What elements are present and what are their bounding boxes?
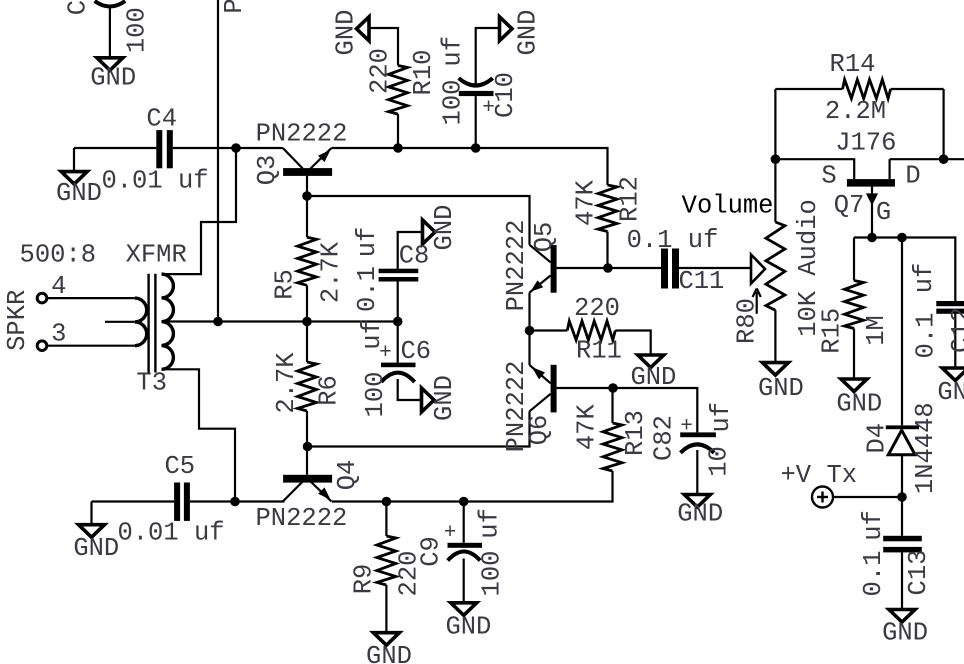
wire C8 bottom	[397, 281, 399, 322]
svg-text:uf: uf	[439, 36, 468, 67]
svg-text:uf: uf	[353, 227, 382, 258]
diode D4	[886, 425, 919, 454]
node center-tap junction	[213, 317, 223, 327]
wire Q7 drain lead	[888, 159, 890, 179]
wire node to C11	[608, 267, 661, 269]
transformer T3 core	[149, 274, 156, 373]
wire Q3 base node to Q5 collector	[307, 196, 530, 245]
capacitor C82	[680, 432, 716, 452]
svg-text:0.1: 0.1	[353, 266, 382, 312]
svg-text:uf: uf	[476, 508, 505, 539]
wire C4 gnd drop	[73, 148, 75, 172]
svg-text:47K: 47K	[572, 179, 601, 226]
wire Q3 emitter to R12 top	[331, 148, 607, 185]
node Q5 base junction	[603, 263, 613, 273]
svg-text:GND: GND	[366, 642, 412, 664]
wire C4 left	[74, 147, 156, 149]
svg-text:Q7: Q7	[834, 191, 865, 220]
node top net vertical wire to XFMR center tap	[217, 0, 219, 322]
svg-text:47K: 47K	[573, 404, 602, 451]
wire C10 top to GND	[476, 28, 500, 85]
svg-text:GND: GND	[430, 205, 459, 251]
svg-text:C2: C2	[64, 0, 93, 15]
ground (R80)	[758, 363, 804, 403]
ground (R10)	[332, 10, 370, 56]
svg-text:C8: C8	[399, 242, 430, 271]
wire emitters to R11	[530, 329, 568, 331]
svg-text:GND: GND	[677, 500, 723, 529]
wire Q6 base node to C82	[613, 388, 697, 432]
svg-text:GND: GND	[73, 534, 119, 563]
wire Q7 gate	[871, 187, 873, 238]
wire R10 top to GND	[369, 28, 398, 66]
JFET Q7	[847, 179, 895, 205]
capacitor C2 (partial, top edge)	[95, 1, 126, 58]
node emitters junction	[525, 326, 535, 336]
wire Q4 emitter to R13 bottom	[332, 471, 613, 502]
node R10 junction	[393, 143, 403, 153]
capacitor C4	[156, 130, 173, 168]
ground (R9)	[366, 633, 412, 664]
node gate junction	[867, 233, 877, 243]
wire R10 bottom	[397, 114, 399, 148]
svg-text:GND: GND	[332, 10, 361, 56]
capacitor C8	[379, 269, 419, 282]
wire C5 left	[92, 500, 175, 502]
svg-text:C6: C6	[400, 337, 431, 366]
svg-text:R13: R13	[621, 410, 650, 456]
svg-text:R11: R11	[576, 337, 622, 366]
svg-text:C9: C9	[417, 536, 446, 567]
svg-text:100: 100	[439, 80, 468, 126]
wire C9 bottom to GND	[463, 559, 465, 604]
wire pin 3 lead	[47, 345, 135, 347]
resistor R14	[843, 80, 891, 99]
svg-text:0.1: 0.1	[912, 313, 941, 359]
svg-text:220: 220	[574, 294, 620, 323]
transformer T3 secondary winding	[135, 298, 147, 346]
svg-text:GND: GND	[937, 378, 964, 407]
node Q4 base junction	[303, 442, 313, 452]
wire R14 right	[891, 88, 944, 90]
wire R9 bottom to GND	[385, 585, 387, 633]
svg-text:220: 220	[366, 48, 395, 94]
svg-text:PN2222: PN2222	[256, 120, 348, 149]
pin 3 terminal	[37, 341, 47, 351]
svg-text:500:8: 500:8	[20, 240, 97, 269]
svg-text:PN2222: PN2222	[502, 220, 531, 312]
transformer T3 primary winding	[162, 274, 174, 369]
resistor R9	[377, 536, 396, 585]
ground (C82)	[677, 495, 723, 529]
node C8/C6 junction	[393, 317, 403, 327]
capacitor C5	[174, 483, 190, 521]
node +V junction	[897, 492, 907, 502]
ground (C13)	[882, 610, 928, 648]
svg-text:C82: C82	[650, 415, 679, 461]
svg-text:Q4: Q4	[333, 460, 362, 491]
wire R14 right leg	[942, 89, 944, 159]
svg-text:PN2222: PN2222	[255, 504, 347, 533]
wire C11 to R80 wiper	[679, 267, 751, 269]
+V Tx supply terminal	[812, 487, 833, 508]
svg-text:P: P	[220, 0, 249, 14]
svg-text:2.2M: 2.2M	[825, 97, 886, 126]
svg-text:XFMR: XFMR	[126, 240, 187, 269]
svg-text:GND: GND	[882, 618, 928, 647]
wire C8 top to GND	[398, 232, 423, 269]
wire R13 top stub	[611, 388, 613, 423]
svg-text:2.7K: 2.7K	[317, 241, 346, 303]
wire R12 bottom stub	[606, 232, 608, 269]
wire Q5 base	[557, 267, 608, 269]
potentiometer R80	[751, 222, 785, 314]
wire drain net to edge	[890, 158, 964, 160]
transistor Q3	[283, 148, 332, 176]
node R14/D junction	[939, 154, 949, 164]
svg-text:C13: C13	[904, 550, 933, 596]
node Q3 base junction	[302, 191, 312, 201]
wire C82 bottom to GND	[696, 450, 698, 495]
wire C12 bottom to GND	[954, 314, 956, 368]
wire node to XFMR top lead	[162, 148, 237, 274]
capacitor C13	[883, 536, 922, 553]
wire R6 top stub	[306, 322, 308, 363]
svg-text:uf: uf	[910, 263, 939, 294]
svg-text:+V: +V	[780, 461, 811, 490]
wire pin 4 lead	[47, 297, 135, 299]
node Q6 base junction	[608, 383, 618, 393]
svg-text:S: S	[821, 162, 836, 191]
node D4 junction	[897, 233, 907, 243]
ground (R15)	[836, 379, 882, 418]
svg-text:T3: T3	[136, 369, 167, 398]
wire C5 gnd drop	[90, 502, 92, 526]
svg-text:Q5: Q5	[530, 222, 559, 253]
svg-text:R15: R15	[818, 308, 847, 354]
node C9 junction	[459, 497, 469, 507]
svg-text:1N4448: 1N4448	[911, 402, 940, 494]
wire Q3 base	[306, 176, 308, 196]
svg-text:GND: GND	[445, 613, 491, 642]
wire R11 to GND	[615, 331, 650, 356]
svg-text:D4: D4	[863, 423, 892, 454]
wire R80 top stub	[774, 159, 776, 222]
svg-text:GND: GND	[430, 375, 459, 421]
svg-text:uf: uf	[859, 510, 888, 541]
svg-text:GND: GND	[758, 374, 804, 403]
transistor Q4	[283, 475, 332, 502]
ground (C5)	[73, 525, 119, 563]
svg-text:R14: R14	[830, 50, 876, 79]
svg-text:Q6: Q6	[525, 415, 554, 446]
svg-text:3: 3	[51, 319, 66, 348]
svg-text:C11: C11	[678, 267, 724, 296]
svg-text:100: 100	[123, 7, 152, 53]
svg-text:SPKR: SPKR	[3, 290, 32, 351]
svg-text:+: +	[680, 415, 693, 438]
wire XFMR secondary stub	[105, 321, 135, 323]
resistor R12	[598, 185, 617, 232]
svg-text:R9: R9	[350, 564, 379, 595]
wire Q6 emitter	[528, 331, 530, 366]
wire Q4 base node to Q6 collector	[308, 411, 530, 446]
svg-text:G: G	[876, 198, 891, 227]
capacitor C10	[459, 78, 494, 96]
wire gate net to D4 cathode	[901, 238, 903, 426]
wire C10 bottom	[475, 96, 477, 148]
node R14/S junction	[771, 154, 781, 164]
capacitor C12	[936, 301, 964, 314]
wire C9 top	[463, 502, 465, 543]
svg-text:R5: R5	[271, 269, 300, 300]
node R5/R6 junction	[302, 317, 312, 327]
svg-text:GND: GND	[56, 179, 102, 208]
wire XFMR bottom lead	[162, 369, 236, 501]
svg-text:D: D	[905, 162, 920, 191]
wire R14 left leg	[774, 89, 776, 159]
wire C4 to Q3 collector	[173, 147, 283, 149]
resistor R6	[298, 362, 317, 411]
svg-text:0.1 uf: 0.1 uf	[627, 226, 719, 255]
svg-text:+: +	[379, 342, 392, 365]
resistor R10	[389, 66, 408, 115]
wire R5 top stub	[306, 196, 308, 237]
svg-text:R80: R80	[733, 298, 762, 344]
wire Q5 emitter	[528, 293, 530, 331]
svg-text:Tx: Tx	[826, 461, 857, 490]
svg-text:GND: GND	[90, 64, 136, 93]
capacitor C6	[381, 363, 416, 382]
ground (C9)	[445, 603, 491, 642]
wire Q6 base	[557, 387, 613, 389]
wire gate net to C12	[854, 238, 955, 302]
wire R9 top stub	[385, 502, 387, 537]
svg-text:R6: R6	[315, 375, 344, 406]
svg-text:J176: J176	[835, 129, 896, 158]
ground (C10)	[500, 10, 543, 56]
wire R5 bottom stub	[306, 285, 308, 321]
svg-text:Q3: Q3	[253, 155, 282, 186]
svg-text:C10: C10	[491, 72, 520, 118]
wire D4 anode	[901, 455, 903, 497]
svg-text:10: 10	[705, 446, 734, 477]
resistor R11	[567, 321, 615, 340]
svg-text:C12: C12	[947, 307, 964, 353]
wire XFMR center tap net	[162, 320, 398, 322]
wire C6 top	[397, 322, 399, 363]
svg-text:Volume: Volume	[682, 191, 774, 220]
wire R15 bottom to GND	[853, 329, 855, 380]
svg-text:4: 4	[51, 272, 66, 301]
svg-text:uf: uf	[707, 402, 736, 433]
svg-text:0.01 uf: 0.01 uf	[117, 519, 224, 548]
wire C5 to Q4 collector	[190, 500, 285, 502]
wire R14 left	[775, 88, 842, 90]
resistor R15	[845, 281, 864, 329]
capacitor C9	[448, 543, 483, 561]
node C10 junction	[471, 143, 481, 153]
node R9 junction	[382, 497, 392, 507]
svg-text:GND: GND	[836, 389, 882, 418]
svg-text:R12: R12	[616, 176, 645, 222]
svg-text:100: 100	[361, 372, 390, 418]
ground (C8)	[423, 205, 460, 251]
svg-text:100: 100	[477, 551, 506, 597]
svg-text:0.1: 0.1	[859, 551, 888, 597]
svg-text:GND: GND	[630, 363, 676, 392]
ground (C12)	[937, 368, 964, 407]
svg-text:0.01 uf: 0.01 uf	[101, 167, 208, 196]
svg-text:2.7K: 2.7K	[272, 352, 301, 414]
capacitor C11	[661, 249, 679, 289]
svg-text:C4: C4	[146, 105, 177, 134]
resistor R13	[603, 423, 622, 471]
wire C6 bottom to GND	[398, 379, 422, 400]
wire R6 bottom stub	[306, 411, 308, 447]
ground (top-left capacitor)	[90, 58, 136, 93]
ground (C4)	[56, 172, 102, 208]
node C5/XFMR junction	[230, 497, 240, 507]
svg-text:C5: C5	[164, 452, 195, 481]
node C4/Q3 junction	[231, 143, 241, 153]
transistor Q5	[530, 245, 557, 293]
wire +V to node	[833, 496, 902, 498]
wire C13 bottom to GND	[901, 552, 903, 609]
svg-text:1M: 1M	[862, 315, 891, 346]
wire Q4 base	[306, 447, 308, 475]
ground (R11)	[630, 355, 676, 392]
wire R80 bottom to GND	[774, 310, 776, 363]
ground (C6)	[422, 375, 460, 421]
wire C13 top	[901, 497, 903, 536]
pin 4 terminal	[37, 293, 47, 303]
svg-text:R10: R10	[409, 50, 438, 96]
transistor Q6	[530, 365, 557, 413]
svg-text:+: +	[444, 522, 457, 545]
resistor R5	[298, 237, 317, 285]
wire node to Q7 source	[775, 159, 854, 179]
wire R15 top stub	[853, 238, 855, 281]
svg-text:GND: GND	[514, 10, 543, 56]
